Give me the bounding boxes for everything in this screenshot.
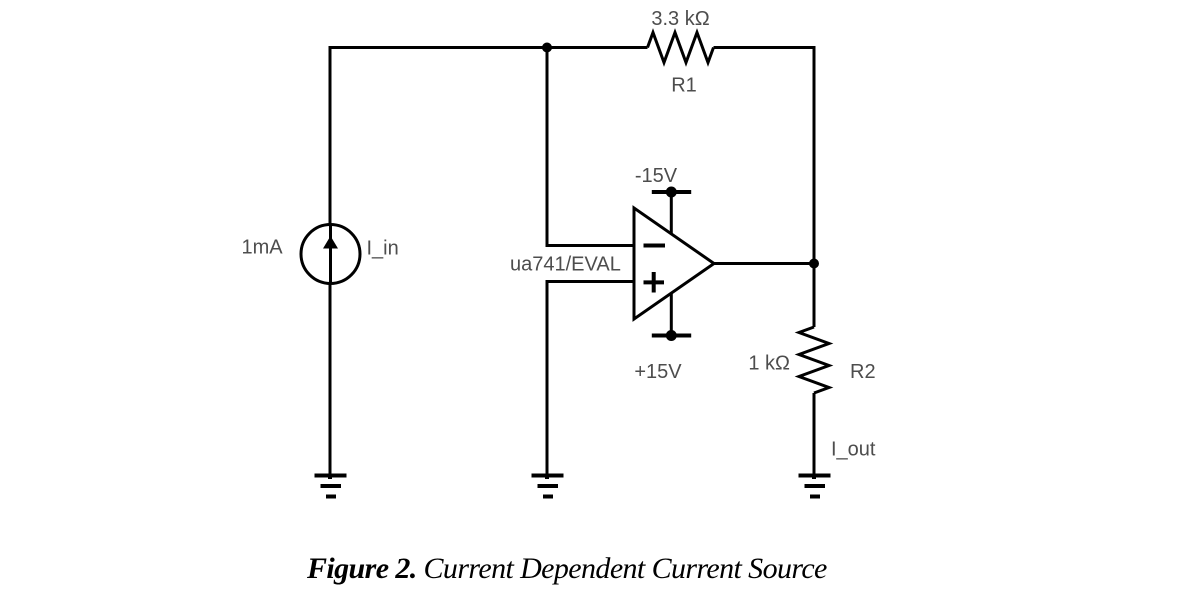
op-amp plus symbol xyxy=(644,272,665,293)
wire middle vertical to ground xyxy=(546,282,549,479)
wire left vertical lower xyxy=(329,283,332,478)
wire left vertical upper xyxy=(329,46,332,225)
svg-text:3.3 kΩ: 3.3 kΩ xyxy=(651,8,709,30)
caption Figure 2 xyxy=(307,554,827,584)
svg-text:ua741/EVAL: ua741/EVAL xyxy=(510,254,621,276)
svg-text:1mA: 1mA xyxy=(242,237,284,259)
junction node at top feedback xyxy=(542,43,552,53)
svg-text:-15V: -15V xyxy=(635,165,678,187)
ground left xyxy=(315,474,347,497)
op-amp V+ power pin xyxy=(670,293,673,336)
resistor R2 xyxy=(799,327,829,393)
ground middle xyxy=(532,474,564,497)
svg-text:I_in: I_in xyxy=(367,238,399,260)
ground right xyxy=(799,474,831,497)
svg-text:+15V: +15V xyxy=(634,361,682,383)
wire top-right horizontal xyxy=(714,46,815,49)
wire inverting input xyxy=(546,244,635,247)
wire top-left horizontal xyxy=(330,46,648,49)
op-amp V- power pin xyxy=(670,192,673,234)
svg-text:1 kΩ: 1 kΩ xyxy=(748,353,790,375)
op-amp U1 xyxy=(634,208,714,319)
wire right vertical upper xyxy=(813,46,816,327)
wire feedback vertical xyxy=(546,48,549,246)
junction node at output xyxy=(809,259,819,269)
svg-text:R1: R1 xyxy=(671,75,697,97)
resistor R1 xyxy=(648,33,714,63)
current source I1 xyxy=(301,225,360,284)
wire op-amp output xyxy=(714,262,814,265)
wire non-inverting input xyxy=(546,280,635,283)
svg-text:R2: R2 xyxy=(850,361,876,383)
wire right vertical lower xyxy=(813,393,816,478)
op-amp minus symbol xyxy=(644,244,666,248)
svg-text:I_out: I_out xyxy=(831,439,876,461)
